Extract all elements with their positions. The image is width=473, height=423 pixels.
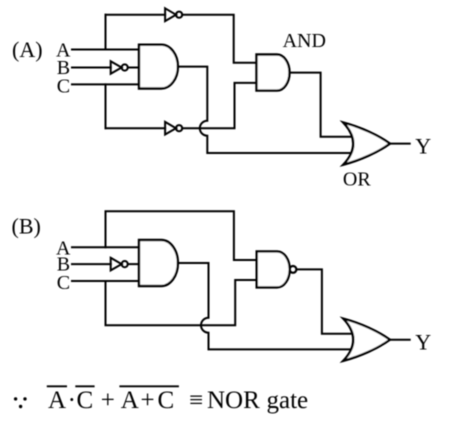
- and-gate U1 (3-input): [139, 45, 178, 89]
- wire input C: [72, 83, 139, 85]
- svg-text:≡: ≡: [189, 387, 203, 414]
- wire input C: [72, 280, 139, 282]
- or-gate U6: [343, 319, 390, 361]
- wire input A: [72, 246, 139, 248]
- svg-text:C: C: [57, 76, 70, 98]
- nand-gate U5: [257, 251, 290, 287]
- wire input B to inverter: [72, 263, 111, 265]
- formula long bar over A+C: [120, 385, 178, 387]
- svg-text:OR: OR: [343, 168, 371, 190]
- svg-text:Y: Y: [415, 330, 431, 355]
- inverter bottom (C): [165, 122, 176, 135]
- wire U2 output to OR upper input: [290, 73, 353, 137]
- wire bottom inverter to AND2 lower input: [182, 83, 256, 128]
- svg-text:NOR: NOR: [207, 387, 260, 414]
- wire C branch down and across to NAND lower input: [106, 280, 257, 325]
- svg-text:+: +: [101, 387, 115, 414]
- wire U3 output: [390, 143, 410, 145]
- wire U4 output with hop over bottom wire: [178, 263, 353, 349]
- wire A branch up and across to NAND upper input: [106, 211, 257, 260]
- svg-text:A: A: [121, 387, 139, 414]
- formula A bar: [48, 385, 66, 387]
- and-gate U4 (3-input): [139, 240, 178, 286]
- and-gate U2 (AND): [257, 55, 290, 91]
- nand bubble: [290, 266, 297, 273]
- inverter top (A): [165, 8, 176, 21]
- wire inverter B output to AND: [128, 263, 139, 265]
- svg-text:C: C: [77, 387, 94, 414]
- svg-text:AND: AND: [283, 30, 326, 52]
- svg-text:(B): (B): [12, 213, 41, 238]
- wire C branch down: [105, 84, 107, 128]
- svg-text:C: C: [57, 272, 70, 294]
- svg-text:(A): (A): [12, 37, 43, 62]
- svg-text:gate: gate: [267, 387, 309, 414]
- inverter B (bubble input of AND): [111, 61, 122, 74]
- svg-text:A: A: [48, 387, 66, 414]
- wire U6 output: [390, 339, 410, 341]
- wire inverter B output to AND: [128, 67, 139, 69]
- wire top inverter to AND2 upper input: [182, 15, 256, 63]
- svg-text:·: ·: [68, 387, 76, 414]
- wire bottom to inverter: [106, 127, 166, 129]
- wire input B to inverter: [72, 67, 111, 69]
- formula C bar: [76, 385, 94, 387]
- or-gate U3 (OR): [343, 123, 390, 165]
- wire U1 output with hop over bottom wire: [178, 67, 353, 153]
- because symbol dots: [14, 397, 27, 408]
- wire input A: [72, 49, 139, 51]
- wire top to inverter: [106, 14, 166, 16]
- svg-text:+: +: [141, 387, 155, 414]
- svg-text:Y: Y: [415, 133, 431, 158]
- wire A branch up: [105, 15, 107, 50]
- wire U5 output to OR upper input: [296, 269, 352, 333]
- inverter B (circuit B): [111, 258, 122, 271]
- svg-text:C: C: [158, 387, 175, 414]
